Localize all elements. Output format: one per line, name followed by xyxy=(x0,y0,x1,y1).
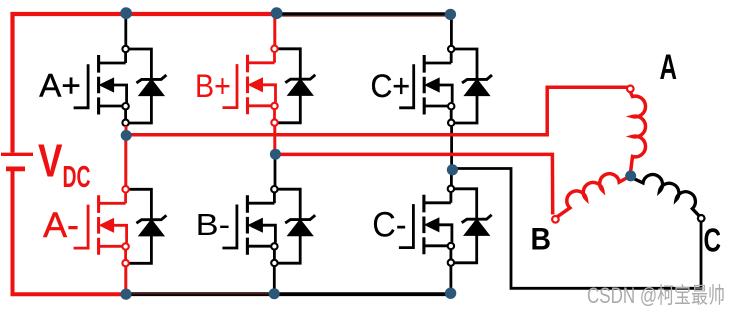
transistor Q6 C- (body) xyxy=(399,186,454,266)
diode D5 (C+ freewheel) xyxy=(454,49,492,123)
transistor Q3 B+ (body, red highlighted) xyxy=(223,46,278,126)
wire: B+ node to B output node (red, crosses A rail) xyxy=(273,126,276,154)
wire: A+ node to A output node xyxy=(125,126,128,133)
svg-text:B-: B- xyxy=(196,207,230,242)
node: A phase output junction xyxy=(121,130,132,141)
wire: A- node to bottom rail (red) xyxy=(124,266,127,292)
wire: B phase output to motor terminal B (red) xyxy=(275,154,553,214)
wire: C+ drain lead from top rail xyxy=(450,16,453,47)
diode D4 (B- freewheel) xyxy=(278,189,316,263)
diode D6 (C- freewheel) xyxy=(454,189,492,263)
node: motor terminal B pin circle xyxy=(552,216,559,223)
winding A (motor phase A, red) xyxy=(627,86,646,171)
svg-text:CSDN @柯宝最帅: CSDN @柯宝最帅 xyxy=(587,283,725,308)
svg-text:C-: C- xyxy=(372,206,406,245)
svg-text:A+: A+ xyxy=(39,68,81,104)
wire: battery - lead down to bottom rail xyxy=(13,171,127,294)
svg-text:A: A xyxy=(660,48,678,87)
wire: top rail black segment (B+ node to C+ node) xyxy=(277,12,451,15)
wire: A+ drain lead from top rail xyxy=(124,16,127,46)
wire: A phase output to motor terminal A (red) xyxy=(126,87,627,134)
wire: A output node to A- drain (red) xyxy=(124,135,127,186)
diode D3 (B+ freewheel) xyxy=(278,49,316,123)
svg-text:C+: C+ xyxy=(371,68,411,104)
transistor Q5 C+ (body) xyxy=(399,46,454,126)
node: motor terminal A pin circle xyxy=(627,86,634,93)
wire: B- node to bottom rail xyxy=(273,266,276,291)
node: bottom rail / A- junction xyxy=(120,289,131,300)
transistor Q2 A- (body, red highlighted) xyxy=(74,186,129,266)
winding C (motor phase C) xyxy=(633,175,705,222)
wire: C+ node down to C output node xyxy=(450,126,453,170)
wire: bottom rail black segment (A- node to C- node) xyxy=(126,292,451,296)
svg-text:A-: A- xyxy=(43,206,79,245)
diode D2 (A- freewheel) xyxy=(129,189,167,263)
wire: C- node to bottom rail xyxy=(449,266,452,291)
transistor Q1 A+ (body) xyxy=(74,46,129,126)
wire: red underlay tint on bottom rail black segment xyxy=(132,293,269,295)
svg-text:V: V xyxy=(38,135,63,187)
svg-text:C: C xyxy=(704,222,722,259)
battery VDC bottom plate xyxy=(6,166,25,171)
wire: red underlay tint on top rail black segment xyxy=(281,15,446,17)
wire: B output node down to B- drain xyxy=(274,154,277,186)
node: top rail / C+ junction xyxy=(445,9,456,20)
wire: positive rail (battery + to B+ node, red) xyxy=(13,14,277,153)
svg-text:B: B xyxy=(531,221,552,257)
node: motor star point xyxy=(625,170,636,181)
battery VDC top plate xyxy=(1,153,33,156)
node: C phase output junction xyxy=(447,164,458,175)
svg-text:B+: B+ xyxy=(195,68,231,104)
node: B phase output junction xyxy=(270,149,281,160)
diode D1 (A+ freewheel) xyxy=(129,49,167,123)
node: top rail / A+ junction xyxy=(120,7,132,19)
winding B (motor phase B, red) xyxy=(552,174,628,223)
transistor Q4 B- (body) xyxy=(222,186,277,266)
node: bottom rail / C- junction xyxy=(445,288,456,299)
node: bottom rail / B- junction xyxy=(269,288,280,299)
wire: B+ drain lead from top rail (red) xyxy=(273,16,276,46)
wire: C output node down to C- drain xyxy=(450,170,453,186)
svg-text:DC: DC xyxy=(63,159,91,194)
node: top rail / B+ junction xyxy=(271,7,283,19)
wire: C phase output to motor terminal C xyxy=(452,169,701,289)
